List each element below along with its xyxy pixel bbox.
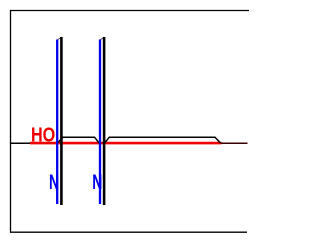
svg-text:N: N	[92, 170, 102, 194]
blue vertical line right pair (left stroke)	[99, 40, 101, 205]
black vertical line left pair (right stroke)	[60, 37, 63, 205]
black midline bond	[58, 137, 100, 143]
svg-text:N: N	[49, 170, 59, 194]
red baseline bond	[30, 142, 222, 145]
frame border bottom	[10, 231, 247, 233]
top cap right pair	[100, 37, 104, 40]
svg-text:HO: HO	[31, 123, 55, 146]
top cap left pair	[57, 37, 61, 40]
left black baseline segment	[11, 142, 31, 144]
black vertical line right pair (right stroke)	[103, 37, 106, 205]
dark red baseline continuation right	[221, 142, 248, 144]
blue vertical line left pair (left stroke)	[56, 40, 58, 205]
frame border left	[10, 10, 12, 233]
frame border top	[10, 10, 249, 12]
black midline bond right part	[105, 137, 221, 143]
